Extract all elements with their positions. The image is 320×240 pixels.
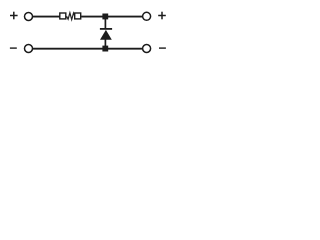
- diode D1 cathode bar: [100, 28, 112, 30]
- diode D1 anode triangle (pointing up): [100, 30, 112, 40]
- wire: input + terminal to fuse F1: [33, 16, 60, 18]
- wire: diode D1 anode down to node B: [104, 40, 106, 49]
- input positive terminal circle: [25, 13, 33, 21]
- fuse F1 filament (zigzag): [67, 13, 75, 20]
- fuse F1 right end cap (square): [75, 13, 81, 19]
- output minus label (-): [159, 47, 166, 49]
- input minus label (-): [10, 47, 17, 49]
- wire: fuse F1 to output + terminal (through node A): [81, 16, 142, 18]
- wire: node A down to diode D1 cathode: [104, 19, 106, 29]
- input plus label (+): [10, 12, 18, 20]
- node B junction dot (bottom): [102, 46, 108, 52]
- output positive terminal circle: [143, 12, 151, 20]
- output plus label (+): [158, 12, 166, 20]
- input negative terminal circle: [25, 45, 33, 53]
- wire: bottom rail, input - terminal to output - terminal (through node B): [33, 48, 143, 50]
- fuse F1 left end cap (square): [60, 13, 66, 19]
- output negative terminal circle: [143, 45, 151, 53]
- node A junction dot (top): [102, 14, 108, 20]
